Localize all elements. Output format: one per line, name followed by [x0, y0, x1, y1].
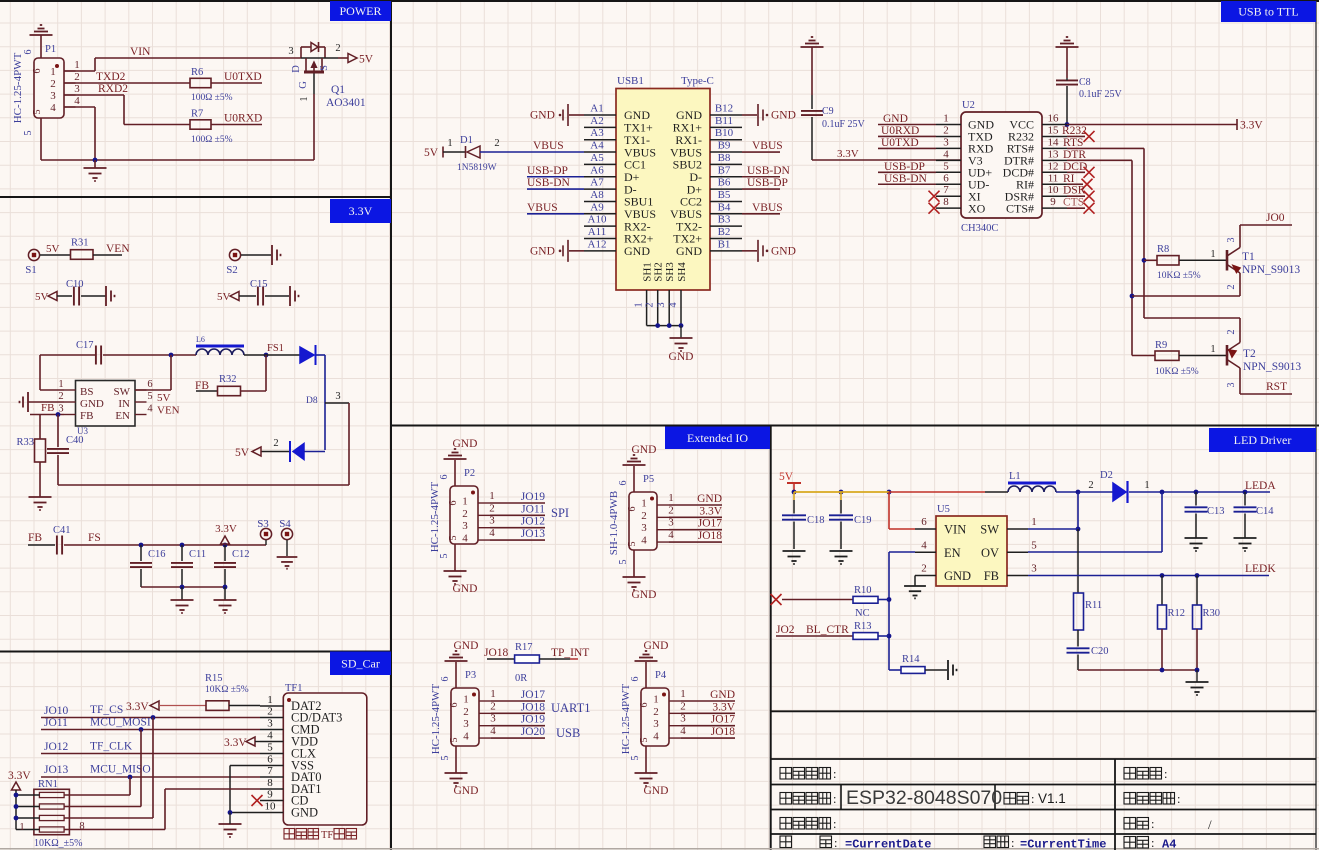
svg-text:U0TXD: U0TXD — [224, 71, 262, 83]
svg-text::: : — [1031, 792, 1034, 806]
svg-text:T1: T1 — [1242, 251, 1255, 263]
svg-text:7: 7 — [943, 184, 949, 196]
svg-text:0R: 0R — [515, 673, 527, 684]
svg-text:JO10: JO10 — [44, 705, 69, 717]
svg-text:12: 12 — [1048, 160, 1059, 172]
svg-text:B1: B1 — [718, 238, 731, 250]
svg-text:1: 1 — [462, 496, 468, 508]
svg-text:USB-DP: USB-DP — [884, 161, 925, 173]
svg-text:P1: P1 — [45, 44, 56, 55]
svg-text:VBUS: VBUS — [752, 140, 783, 152]
svg-text:U5: U5 — [937, 504, 950, 515]
svg-text:JO17: JO17 — [698, 518, 723, 530]
svg-text:VBUS: VBUS — [533, 140, 564, 152]
svg-text:A8: A8 — [590, 189, 604, 201]
svg-text:RN1: RN1 — [38, 779, 58, 790]
svg-text:P2: P2 — [464, 468, 475, 479]
svg-text:U0RXD: U0RXD — [881, 125, 919, 137]
svg-text:5: 5 — [618, 560, 629, 565]
svg-text:9: 9 — [1050, 196, 1056, 208]
svg-text:3.3V: 3.3V — [712, 701, 735, 713]
svg-text:2: 2 — [1088, 480, 1093, 491]
svg-text:RXD2: RXD2 — [98, 83, 128, 95]
svg-text:TP_INT: TP_INT — [551, 647, 589, 659]
svg-text:C12: C12 — [232, 549, 250, 560]
svg-text:3.3V: 3.3V — [1240, 120, 1263, 132]
svg-text:4: 4 — [489, 527, 495, 539]
svg-text:SH-1.0-4PWB: SH-1.0-4PWB — [608, 491, 620, 555]
svg-text:3: 3 — [943, 136, 949, 148]
svg-text:JO13: JO13 — [44, 764, 69, 776]
svg-text:4: 4 — [50, 102, 56, 114]
svg-text:R9: R9 — [1155, 340, 1167, 351]
svg-text:R33: R33 — [16, 437, 34, 448]
svg-text:B10: B10 — [715, 127, 734, 139]
svg-text:1: 1 — [653, 694, 659, 706]
svg-text:CTS: CTS — [1063, 197, 1084, 209]
svg-text:GND: GND — [80, 398, 104, 410]
svg-text:B7: B7 — [718, 164, 731, 176]
svg-text:10: 10 — [1048, 184, 1060, 196]
svg-text:5V: 5V — [35, 291, 49, 303]
svg-text:A12: A12 — [588, 238, 607, 250]
svg-text:4: 4 — [490, 725, 496, 737]
svg-text:A5: A5 — [590, 152, 604, 164]
svg-text:S2: S2 — [226, 264, 238, 276]
svg-text:5: 5 — [1031, 539, 1037, 551]
svg-text:3: 3 — [50, 90, 56, 102]
svg-text:2: 2 — [943, 124, 949, 136]
svg-text:DSR: DSR — [1063, 185, 1086, 197]
svg-text:5: 5 — [23, 131, 34, 136]
svg-text:GND: GND — [883, 113, 908, 125]
svg-text:2: 2 — [335, 43, 340, 54]
svg-text:TF: TF — [321, 830, 333, 841]
svg-text:3.3V: 3.3V — [224, 737, 247, 749]
svg-text:4: 4 — [943, 148, 949, 160]
svg-text:S1: S1 — [25, 264, 37, 276]
svg-text:P4: P4 — [655, 670, 667, 681]
svg-text:A3: A3 — [590, 127, 604, 139]
svg-text:DTR: DTR — [1063, 149, 1086, 161]
svg-text:C8: C8 — [1079, 77, 1091, 88]
svg-text:4: 4 — [147, 404, 153, 415]
svg-text:SH2: SH2 — [653, 262, 665, 282]
svg-text:B8: B8 — [718, 152, 731, 164]
svg-text:2: 2 — [267, 706, 273, 718]
svg-text:5: 5 — [32, 110, 43, 115]
svg-text:3: 3 — [656, 302, 667, 307]
svg-text:OV: OV — [981, 546, 999, 560]
svg-text:TXD2: TXD2 — [96, 71, 126, 83]
svg-text:D1: D1 — [460, 135, 473, 146]
svg-text:FB: FB — [984, 569, 999, 583]
svg-text:R232: R232 — [1062, 125, 1087, 137]
svg-text::: : — [1177, 792, 1180, 806]
svg-text:C18: C18 — [807, 515, 825, 526]
svg-text:4: 4 — [462, 533, 468, 545]
svg-text:JO12: JO12 — [521, 516, 546, 528]
svg-text:2: 2 — [489, 502, 495, 514]
svg-text:5V: 5V — [235, 447, 250, 459]
svg-text:R10: R10 — [854, 585, 872, 596]
svg-text:3: 3 — [653, 718, 659, 730]
svg-text:JO11: JO11 — [521, 503, 545, 515]
svg-text:1: 1 — [641, 498, 647, 510]
svg-text:6: 6 — [32, 69, 43, 74]
svg-text:A4: A4 — [590, 140, 604, 152]
svg-text:1: 1 — [668, 492, 674, 504]
svg-text:A11: A11 — [588, 226, 607, 238]
svg-text:USB1: USB1 — [617, 75, 644, 87]
svg-text:5: 5 — [943, 160, 949, 172]
svg-text::: : — [834, 836, 837, 850]
svg-text:SW: SW — [114, 386, 131, 398]
svg-text:HC-1.25-4PWT: HC-1.25-4PWT — [430, 683, 442, 754]
svg-text:R6: R6 — [191, 67, 203, 78]
svg-text:2: 2 — [1226, 285, 1237, 290]
svg-text:1: 1 — [463, 694, 469, 706]
svg-text:SPI: SPI — [551, 506, 569, 520]
svg-text:1: 1 — [447, 138, 452, 149]
svg-text:0.1uF 25V: 0.1uF 25V — [1079, 89, 1123, 100]
svg-text:FB: FB — [41, 402, 54, 414]
svg-text:TF_CS: TF_CS — [90, 704, 123, 716]
svg-text:SH3: SH3 — [664, 262, 676, 282]
svg-text:Extended IO: Extended IO — [687, 431, 748, 445]
svg-text:GND: GND — [530, 110, 555, 122]
svg-text:T2: T2 — [1243, 348, 1256, 360]
svg-text::: : — [1151, 817, 1154, 831]
svg-text:GND: GND — [454, 640, 479, 652]
svg-text:10: 10 — [265, 801, 277, 813]
svg-text:B2: B2 — [718, 226, 731, 238]
svg-text:6: 6 — [627, 507, 638, 512]
svg-text:13: 13 — [1048, 148, 1060, 160]
svg-text:B11: B11 — [715, 115, 733, 127]
svg-text:A1: A1 — [590, 103, 603, 115]
svg-text:D2: D2 — [1100, 470, 1113, 481]
svg-text:R7: R7 — [191, 109, 203, 120]
svg-text:TF_CLK: TF_CLK — [90, 741, 133, 753]
svg-text:4: 4 — [267, 730, 273, 742]
svg-text:FB: FB — [195, 380, 209, 392]
svg-text:B3: B3 — [718, 214, 731, 226]
svg-text:FB: FB — [28, 532, 42, 544]
svg-text:NC: NC — [855, 608, 870, 619]
svg-text:HC-1.25-4PWT: HC-1.25-4PWT — [12, 52, 24, 123]
svg-text:1: 1 — [1031, 516, 1037, 528]
svg-text:1: 1 — [943, 113, 949, 125]
svg-text:G: G — [298, 81, 309, 89]
svg-text:R17: R17 — [515, 642, 533, 653]
svg-text:VEN: VEN — [106, 243, 130, 255]
svg-text:4: 4 — [680, 725, 686, 737]
svg-text:4: 4 — [641, 535, 647, 547]
svg-text:VIN: VIN — [944, 523, 966, 537]
svg-text:5V: 5V — [157, 392, 171, 404]
svg-text::: : — [833, 792, 836, 806]
svg-text:/: / — [1208, 817, 1212, 832]
svg-text:C15: C15 — [250, 279, 268, 290]
svg-text:B12: B12 — [715, 103, 733, 115]
svg-text:100Ω ±5%: 100Ω ±5% — [191, 135, 233, 145]
svg-text:USB-DN: USB-DN — [884, 173, 928, 185]
svg-text:7: 7 — [267, 765, 273, 777]
svg-text:USB-DP: USB-DP — [527, 165, 568, 177]
svg-text:GND: GND — [291, 806, 318, 820]
svg-text:1: 1 — [489, 490, 495, 502]
svg-text:=CurrentTime: =CurrentTime — [1020, 838, 1106, 850]
svg-text:MCU_MOSI: MCU_MOSI — [90, 717, 151, 729]
svg-text:14: 14 — [1048, 136, 1060, 148]
svg-text:JO0: JO0 — [1266, 212, 1285, 224]
svg-text:GND: GND — [669, 351, 694, 363]
svg-text:GND: GND — [644, 785, 669, 797]
svg-text::: : — [833, 767, 836, 781]
svg-text:C40: C40 — [66, 435, 84, 446]
svg-text:U0TXD: U0TXD — [881, 137, 919, 149]
svg-text:UART1: UART1 — [551, 701, 591, 715]
svg-text:CTS#: CTS# — [1006, 201, 1034, 215]
svg-text:1: 1 — [19, 822, 24, 833]
svg-text:2: 2 — [921, 563, 927, 575]
svg-text:U0RXD: U0RXD — [224, 113, 262, 125]
svg-text::: : — [833, 817, 836, 831]
svg-text:3.3V: 3.3V — [8, 770, 31, 782]
svg-text:3: 3 — [1226, 238, 1237, 243]
svg-text:B9: B9 — [718, 140, 731, 152]
svg-text:GND: GND — [710, 689, 735, 701]
svg-text:RI: RI — [1063, 173, 1075, 185]
svg-text:2: 2 — [74, 71, 80, 83]
svg-text:5: 5 — [267, 742, 273, 754]
svg-text:ESP32-8048S070: ESP32-8048S070 — [846, 787, 1002, 809]
svg-text:GND: GND — [453, 583, 478, 595]
svg-text:10KΩ_±5%: 10KΩ_±5% — [34, 838, 82, 849]
svg-text:R14: R14 — [902, 654, 920, 665]
svg-text:R31: R31 — [71, 238, 89, 249]
svg-text:3: 3 — [1031, 563, 1037, 575]
svg-text:15: 15 — [1048, 124, 1060, 136]
svg-text:2: 2 — [462, 508, 468, 520]
svg-text:B6: B6 — [718, 177, 731, 189]
svg-text:Q1: Q1 — [331, 84, 345, 96]
svg-text:USB: USB — [556, 726, 580, 740]
svg-text:HC-1.25-4PWT: HC-1.25-4PWT — [620, 683, 632, 754]
svg-text:5V: 5V — [46, 243, 60, 255]
svg-text:1: 1 — [299, 97, 310, 102]
svg-text:LEDA: LEDA — [1245, 480, 1276, 492]
svg-text:1: 1 — [634, 302, 645, 307]
svg-text:R12: R12 — [1168, 608, 1186, 619]
svg-text:3: 3 — [489, 515, 495, 527]
svg-text:P5: P5 — [643, 474, 654, 485]
svg-text:C16: C16 — [148, 549, 166, 560]
svg-text:1: 1 — [267, 694, 273, 706]
svg-text:SH4: SH4 — [676, 262, 688, 282]
svg-text:C17: C17 — [76, 340, 94, 351]
svg-text:11: 11 — [1048, 172, 1059, 184]
svg-text:A6: A6 — [590, 164, 604, 176]
svg-text:6: 6 — [630, 677, 641, 682]
svg-text:LED Driver: LED Driver — [1234, 433, 1292, 447]
svg-text:5: 5 — [147, 391, 152, 402]
svg-text:VIN: VIN — [130, 46, 151, 58]
svg-text:1N5819W: 1N5819W — [457, 163, 497, 173]
svg-text:3: 3 — [74, 83, 80, 95]
svg-text:JO17: JO17 — [521, 689, 546, 701]
svg-text:S3: S3 — [257, 518, 269, 530]
svg-text:EN: EN — [944, 546, 961, 560]
svg-text:IN: IN — [118, 398, 130, 410]
svg-text:GND: GND — [944, 569, 971, 583]
svg-text:C11: C11 — [189, 549, 206, 560]
svg-text:JO20: JO20 — [521, 726, 546, 738]
svg-text:3.3V: 3.3V — [126, 701, 149, 713]
svg-text:C10: C10 — [66, 279, 84, 290]
svg-text::: : — [1011, 836, 1014, 850]
svg-text:NPN_S9013: NPN_S9013 — [1243, 361, 1301, 373]
svg-text:FS: FS — [88, 532, 101, 544]
svg-text:2: 2 — [645, 302, 656, 307]
svg-text:100Ω ±5%: 100Ω ±5% — [191, 93, 233, 103]
svg-text:5: 5 — [439, 554, 450, 559]
svg-text:GND: GND — [676, 244, 702, 258]
svg-text:GND: GND — [771, 110, 796, 122]
svg-text:3: 3 — [267, 718, 273, 730]
svg-text:TF1: TF1 — [285, 683, 303, 694]
svg-text:C14: C14 — [1256, 506, 1274, 517]
svg-text:16: 16 — [1048, 113, 1060, 125]
svg-text:FS1: FS1 — [267, 343, 284, 354]
svg-text:3.3V: 3.3V — [837, 148, 859, 160]
svg-text:6: 6 — [449, 703, 460, 708]
svg-text:5: 5 — [630, 756, 641, 761]
svg-text:GND: GND — [632, 444, 657, 456]
svg-text:5: 5 — [639, 738, 650, 743]
svg-text:JO19: JO19 — [521, 714, 546, 726]
svg-text:D: D — [291, 65, 302, 73]
svg-text:C19: C19 — [854, 515, 872, 526]
svg-text:C41: C41 — [53, 525, 71, 536]
svg-text:2: 2 — [50, 78, 56, 90]
svg-text:5: 5 — [627, 542, 638, 547]
svg-text:GND: GND — [530, 245, 555, 257]
svg-text:1: 1 — [1210, 249, 1215, 260]
svg-text:3: 3 — [335, 391, 340, 402]
svg-text:GND: GND — [632, 589, 657, 601]
svg-text:2: 2 — [490, 700, 496, 712]
svg-text:L6: L6 — [196, 335, 205, 344]
svg-text:3.3V: 3.3V — [349, 204, 373, 218]
svg-text:S: S — [319, 65, 330, 71]
svg-text:2: 2 — [494, 138, 499, 149]
svg-text:VBUS: VBUS — [752, 202, 783, 214]
svg-text:Type-C: Type-C — [681, 75, 714, 87]
svg-text:USB-DN: USB-DN — [527, 177, 571, 189]
svg-text:6: 6 — [23, 50, 34, 55]
svg-text:USB-DN: USB-DN — [747, 165, 791, 177]
svg-text:SW: SW — [980, 523, 999, 537]
svg-text:5V: 5V — [779, 471, 794, 483]
svg-text:XO: XO — [968, 201, 986, 215]
svg-text:4: 4 — [463, 731, 469, 743]
svg-text:3: 3 — [288, 46, 293, 57]
svg-text:JO12: JO12 — [44, 741, 69, 753]
svg-text:A10: A10 — [588, 214, 607, 226]
svg-text:GND: GND — [771, 245, 796, 257]
svg-text:4: 4 — [921, 539, 927, 551]
svg-text:1: 1 — [58, 379, 63, 390]
svg-text:2: 2 — [58, 391, 63, 402]
svg-text:2: 2 — [641, 510, 647, 522]
svg-text:8: 8 — [79, 821, 84, 832]
svg-text:C13: C13 — [1207, 506, 1225, 517]
svg-text:5V: 5V — [424, 147, 439, 159]
svg-text:2: 2 — [1226, 330, 1237, 335]
svg-text:3: 3 — [1226, 383, 1237, 388]
svg-text:JO18: JO18 — [484, 647, 509, 659]
svg-text:AO3401: AO3401 — [326, 97, 366, 109]
svg-text:5: 5 — [448, 536, 459, 541]
svg-text:4: 4 — [668, 302, 679, 308]
svg-text:4: 4 — [653, 731, 659, 743]
svg-text:SD_Car: SD_Car — [341, 656, 380, 670]
svg-text:3: 3 — [680, 713, 686, 725]
svg-text:V1.1: V1.1 — [1038, 791, 1066, 806]
svg-text:A7: A7 — [590, 177, 604, 189]
svg-text:4: 4 — [668, 529, 674, 541]
svg-text:R11: R11 — [1085, 600, 1102, 611]
svg-text:1: 1 — [50, 66, 56, 78]
svg-text:VBUS: VBUS — [527, 202, 558, 214]
svg-text:6: 6 — [440, 677, 451, 682]
svg-text:6: 6 — [618, 481, 629, 486]
svg-text:GND: GND — [697, 493, 722, 505]
svg-text:1: 1 — [1144, 480, 1149, 491]
svg-text:BS: BS — [80, 386, 93, 398]
svg-text:10KΩ ±5%: 10KΩ ±5% — [1157, 271, 1201, 281]
svg-text:RTS: RTS — [1063, 137, 1083, 149]
svg-text:L1: L1 — [1009, 471, 1021, 482]
svg-text:3: 3 — [462, 520, 468, 532]
svg-text:3: 3 — [668, 517, 674, 529]
svg-text:1: 1 — [490, 688, 496, 700]
svg-text:D8: D8 — [306, 396, 318, 406]
svg-text:USB-DP: USB-DP — [747, 177, 788, 189]
svg-text:6: 6 — [448, 501, 459, 506]
svg-text:S4: S4 — [279, 518, 291, 530]
svg-text:3: 3 — [463, 718, 469, 730]
svg-text:R13: R13 — [854, 621, 872, 632]
svg-text:5V: 5V — [217, 291, 231, 303]
svg-text:A9: A9 — [590, 201, 604, 213]
svg-text:JO18: JO18 — [711, 726, 736, 738]
svg-text:6: 6 — [943, 172, 949, 184]
svg-text:6: 6 — [921, 516, 927, 528]
svg-text:HC-1.25-4PWT: HC-1.25-4PWT — [429, 481, 441, 552]
svg-text:BL_CTR: BL_CTR — [806, 624, 849, 636]
svg-text:2: 2 — [463, 706, 469, 718]
svg-text:6: 6 — [639, 703, 650, 708]
svg-text:2: 2 — [668, 504, 674, 516]
svg-text:10KΩ ±5%: 10KΩ ±5% — [205, 685, 249, 695]
svg-text:GND: GND — [454, 785, 479, 797]
svg-text:U2: U2 — [962, 100, 975, 111]
svg-text:0.1uF 25V: 0.1uF 25V — [822, 119, 866, 130]
svg-text:R30: R30 — [1203, 608, 1221, 619]
